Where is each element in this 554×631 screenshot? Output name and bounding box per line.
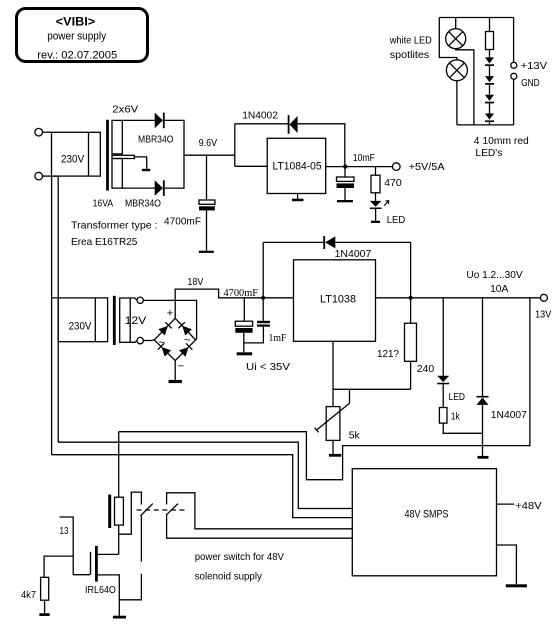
transformer T2 primary 230V bbox=[58, 298, 107, 342]
bridge diode top-right bbox=[182, 326, 192, 336]
terminal T2 bottom bbox=[137, 337, 143, 343]
diode D2 red LED bbox=[485, 76, 494, 82]
terminal mains L bbox=[35, 128, 43, 136]
svg-text:rev.: 02.07.2005: rev.: 02.07.2005 bbox=[37, 49, 117, 61]
resistor R2 240 bbox=[405, 323, 417, 361]
svg-text:1N4007: 1N4007 bbox=[335, 248, 372, 260]
wire pot to ground bbox=[332, 440, 334, 454]
terminal 13V output bbox=[540, 294, 547, 301]
diode MBR340 top bbox=[155, 113, 163, 129]
svg-text:+13V: +13V bbox=[521, 60, 548, 72]
bridge rectifier diamond bbox=[154, 318, 195, 360]
wire net 13 stub bbox=[60, 517, 74, 575]
wire C2 ground stem bbox=[344, 188, 346, 200]
wire coil to MOSFET drain bbox=[118, 534, 120, 554]
wire 13V feed from output rail bbox=[119, 298, 530, 480]
svg-text:5k: 5k bbox=[349, 429, 361, 441]
svg-text:9.6V: 9.6V bbox=[199, 137, 218, 149]
transistor Q1 IRL640 gate bar bbox=[90, 552, 92, 575]
svg-text:121?: 121? bbox=[377, 348, 399, 360]
potentiometer P1 5k body bbox=[326, 407, 340, 441]
svg-text:13V: 13V bbox=[535, 309, 551, 321]
wire Q1 source lead bbox=[98, 575, 120, 616]
ground D8 bbox=[478, 456, 489, 459]
svg-text:+: + bbox=[167, 308, 173, 320]
wire output rail Uo bbox=[376, 297, 541, 299]
svg-text:Ui < 35V: Ui < 35V bbox=[246, 361, 290, 373]
ground 4k7 bbox=[39, 613, 49, 616]
capacitor C3 4700mF stem bbox=[243, 298, 245, 321]
wire Q1 gate lead bbox=[73, 574, 90, 576]
wire to bridge left corner bbox=[143, 339, 154, 342]
svg-text:1mF: 1mF bbox=[269, 332, 287, 344]
ground Q1 source bbox=[113, 616, 126, 619]
wire lamp L1 top stem bbox=[455, 18, 457, 29]
svg-text:+48V: +48V bbox=[515, 500, 542, 512]
wire LT1084 ground stem bbox=[297, 194, 299, 199]
bridge diode bottom-left bbox=[162, 347, 172, 357]
wire to bridge right corner bbox=[143, 300, 196, 340]
terminal +13V bbox=[511, 62, 517, 68]
diode D4 red LED bbox=[485, 114, 494, 120]
resistor R3 1k bbox=[439, 408, 447, 424]
svg-text:1k: 1k bbox=[451, 410, 461, 422]
wire bypass riser from node A bbox=[262, 242, 264, 297]
wire secondary top to diode bbox=[122, 119, 154, 121]
wire C3 ground stem bbox=[243, 333, 245, 353]
ground LED D5 bbox=[371, 221, 380, 223]
svg-text:Transformer type :: Transformer type : bbox=[71, 220, 158, 232]
wire 4k7 branch bbox=[44, 556, 73, 577]
wire resistor stems bbox=[489, 18, 491, 58]
wire 1N4007 branch from rail bbox=[482, 298, 484, 396]
wire mains drop 1 bbox=[51, 176, 53, 455]
wire lamp L2 bottom bbox=[456, 81, 458, 125]
diode D8 1N4007 bbox=[477, 396, 489, 398]
svg-text:4 10mm red: 4 10mm red bbox=[474, 135, 529, 147]
transformer T2 core bbox=[113, 296, 116, 345]
svg-text:~: ~ bbox=[184, 335, 190, 347]
lamp L2 bbox=[446, 60, 467, 81]
svg-text:Uo 1.2...30V: Uo 1.2...30V bbox=[466, 269, 522, 281]
svg-text:power switch for 48V: power switch for 48V bbox=[195, 551, 284, 563]
svg-text:10mF: 10mF bbox=[353, 152, 375, 164]
terminal GND bbox=[511, 73, 517, 79]
svg-text:13: 13 bbox=[60, 525, 69, 537]
wire GND leg bbox=[513, 79, 515, 125]
wire S1b lower contact bbox=[167, 515, 353, 538]
node B junction dot bbox=[409, 296, 413, 300]
wire pot wiper riser bbox=[349, 389, 351, 403]
wire LED D5 ground stem bbox=[375, 209, 377, 221]
wire right leg to +13V bbox=[513, 18, 515, 63]
wire bridge minus to ground bbox=[174, 361, 176, 380]
switch linkage dashed bbox=[137, 509, 187, 511]
terminal T2 top bbox=[137, 297, 143, 303]
svg-text:2x6V: 2x6V bbox=[112, 103, 138, 115]
wire +5V rail bbox=[326, 166, 393, 168]
switch S1a blade bbox=[141, 504, 153, 516]
node A junction dot bbox=[261, 296, 265, 300]
svg-text:+5V/5A: +5V/5A bbox=[409, 161, 445, 173]
wire LED to 1k bbox=[442, 384, 444, 407]
wire R2 bottom to ADJ line bbox=[410, 361, 412, 389]
svg-text:Erea E16TR25: Erea E16TR25 bbox=[71, 236, 138, 248]
wire left leg to lamp2 bbox=[439, 18, 457, 60]
resistor R4 4k7 bbox=[41, 577, 49, 600]
svg-text:white LED: white LED bbox=[389, 34, 432, 46]
capacitor C2 10mF stem bbox=[344, 167, 346, 177]
wire bottom rail of LED block bbox=[457, 124, 514, 126]
svg-text:4700mF: 4700mF bbox=[164, 216, 201, 228]
wire 9.6V node riser to bypass diode bbox=[234, 124, 236, 167]
relay K1 core bar bbox=[108, 495, 111, 529]
bridge diode bottom-right bbox=[179, 347, 189, 357]
wire ADJ horizontal bbox=[333, 388, 411, 390]
capacitor C1 4700mF stem bbox=[206, 155, 208, 200]
transformer T1 secondary top winding bbox=[112, 120, 122, 153]
svg-text:IRL64O: IRL64O bbox=[85, 584, 116, 596]
wire coil bottom junction bbox=[119, 492, 142, 534]
transistor Q1 channel bar bbox=[95, 546, 98, 582]
LED D5 indicator bbox=[370, 201, 382, 207]
wire mains 1 to SMPS bbox=[52, 455, 353, 518]
regulator U2 LT1038 box bbox=[294, 260, 376, 342]
wire LED chain stems bbox=[489, 66, 491, 125]
diode D1 red LED bbox=[485, 57, 494, 63]
node +5V junction dot bbox=[343, 165, 347, 169]
wire LT1084 input bbox=[235, 165, 267, 167]
wire Q1 drain lead bbox=[98, 553, 119, 555]
wire +48V output bbox=[497, 503, 515, 505]
ground bridge bbox=[169, 380, 182, 383]
svg-text:LED's: LED's bbox=[475, 147, 502, 159]
capacitor C3 4700mF plates bbox=[235, 321, 252, 326]
wire bypass diode right segment bbox=[298, 124, 345, 167]
wire 18V rail bbox=[175, 289, 293, 318]
wire bypass diode right segment bbox=[335, 242, 410, 297]
resistor R1 470 stem bbox=[375, 167, 377, 176]
ground C1 bbox=[199, 251, 214, 253]
wire C4 bottom to C3 stem bbox=[244, 327, 264, 343]
svg-text:LED: LED bbox=[449, 391, 466, 403]
transformer T1 center tap lead bbox=[112, 155, 134, 158]
svg-text:solenoid supply: solenoid supply bbox=[195, 571, 263, 583]
svg-text:~: ~ bbox=[159, 337, 165, 349]
title box bbox=[17, 9, 148, 62]
capacitor C4 1mF plates bbox=[257, 321, 270, 323]
svg-text:4k7: 4k7 bbox=[21, 589, 36, 601]
svg-text:12V: 12V bbox=[125, 315, 147, 327]
resistor R-ledchain bbox=[486, 32, 494, 50]
wire 4k7 to ground bbox=[44, 600, 46, 613]
svg-text:230V: 230V bbox=[69, 321, 92, 333]
ground C3 bbox=[237, 352, 252, 355]
bridge diode top-left bbox=[158, 326, 168, 336]
wire 1k to diode branch bbox=[443, 423, 482, 433]
terminal mains N bbox=[35, 172, 43, 180]
lamp L1 bbox=[446, 29, 466, 49]
wire mains drop 2 bbox=[57, 176, 59, 442]
svg-text:10A: 10A bbox=[490, 283, 508, 295]
svg-text:470: 470 bbox=[384, 177, 402, 189]
LED D5 arrow bbox=[384, 201, 389, 206]
switch S1b blade bbox=[166, 504, 178, 516]
svg-text:LED: LED bbox=[387, 214, 406, 226]
wire R1 to LED bbox=[375, 193, 377, 201]
wire S1b upper contact bbox=[167, 493, 353, 529]
diode D3 red LED bbox=[485, 95, 494, 101]
wire terminal L to primary bbox=[43, 131, 52, 133]
capacitor C1 4700mF plates bbox=[199, 200, 215, 204]
op-amp U1 LT1084-05 box bbox=[267, 138, 326, 193]
diode 1N4002 bbox=[288, 115, 290, 134]
resistor R2 240 stem top bbox=[410, 298, 412, 323]
potentiometer P1 5k stem top bbox=[332, 389, 334, 406]
capacitor C2 10mF plates bbox=[337, 177, 355, 181]
wire secondary bottom stub bbox=[130, 341, 137, 343]
transformer T2 secondary 12V bbox=[120, 298, 131, 342]
wire LED branch from rail bbox=[442, 298, 444, 376]
wire lamp L1 bottom to bus bbox=[456, 49, 474, 125]
transformer T1 core bbox=[106, 120, 109, 191]
svg-text:230V: 230V bbox=[61, 154, 85, 166]
svg-text:LT1084-05: LT1084-05 bbox=[273, 161, 322, 173]
diode MBR340 bottom bbox=[155, 180, 163, 196]
wire top rail of LED spotlight block bbox=[439, 17, 513, 19]
wire mains 2 to SMPS bbox=[58, 442, 352, 508]
diode D6 1N4007 bypass bbox=[323, 236, 325, 249]
relay K1 coil bbox=[115, 497, 124, 525]
wire secondary top stub bbox=[130, 298, 137, 300]
svg-text:1N4007: 1N4007 bbox=[491, 409, 527, 421]
wire bypass diode left segment bbox=[235, 123, 288, 125]
wire bypass diode left segment bbox=[263, 241, 323, 243]
potentiometer P1 5k wiper arrow bbox=[315, 403, 350, 432]
wire D8 to ground bbox=[482, 405, 484, 456]
wire S1a lower contact bbox=[140, 516, 142, 562]
svg-text:−: − bbox=[178, 361, 184, 373]
svg-text:240: 240 bbox=[417, 363, 435, 375]
transformer T1 secondary bottom winding bbox=[112, 159, 122, 189]
resistor R1 470 bbox=[371, 175, 380, 193]
capacitor C4 1mF stem bbox=[262, 298, 264, 321]
wire SMPS ground leg bbox=[497, 545, 517, 584]
svg-text:MBR34O: MBR34O bbox=[125, 197, 161, 209]
svg-text:spotlites: spotlites bbox=[390, 49, 430, 61]
wire terminal N to primary bbox=[43, 175, 59, 177]
ground pot bbox=[329, 454, 341, 457]
svg-text:16VA: 16VA bbox=[93, 197, 114, 209]
wire center tap to ground bbox=[134, 157, 146, 169]
LED D7 output indicator bbox=[437, 376, 449, 382]
wire secondary bottom to diode bbox=[122, 187, 154, 189]
power supply 48V SMPS box bbox=[352, 469, 496, 576]
wire C1 to ground bbox=[206, 210, 208, 250]
wire 9.6V rail bbox=[184, 154, 235, 156]
svg-text:GND: GND bbox=[521, 77, 540, 89]
ground C2 bbox=[337, 200, 353, 202]
wire S1a lower contact second segment bbox=[119, 574, 141, 600]
svg-text:MBR34O: MBR34O bbox=[138, 133, 174, 145]
wire ADJ pin bbox=[332, 341, 334, 389]
terminal +5V/5A bbox=[393, 163, 401, 171]
svg-text:power supply: power supply bbox=[47, 30, 106, 42]
wire diode outputs junction bbox=[165, 120, 184, 188]
svg-text:4700mF: 4700mF bbox=[224, 287, 259, 299]
svg-text:18V: 18V bbox=[187, 276, 203, 288]
ground center tap bbox=[142, 169, 150, 171]
svg-text:48V SMPS: 48V SMPS bbox=[405, 508, 449, 520]
transformer T1 primary 230V bbox=[52, 132, 101, 176]
ground SMPS bbox=[506, 584, 527, 587]
wire relay coil feed bbox=[118, 432, 120, 498]
svg-text:1N4002: 1N4002 bbox=[242, 109, 278, 121]
svg-text:<VIBI>: <VIBI> bbox=[56, 16, 96, 28]
ground LT1084 bbox=[292, 199, 304, 202]
svg-text:LT1038: LT1038 bbox=[320, 294, 356, 306]
